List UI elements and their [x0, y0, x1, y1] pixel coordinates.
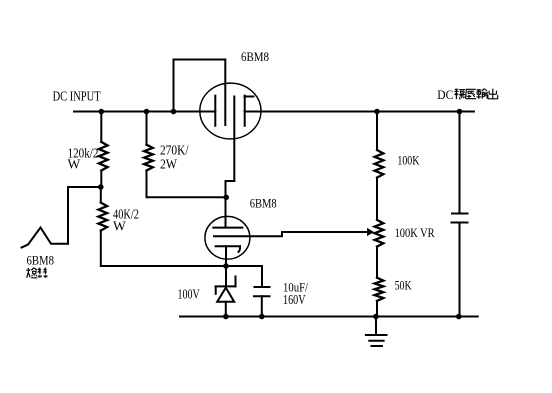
- svg-text:6BM8: 6BM8: [241, 49, 269, 64]
- svg-text:6BM8: 6BM8: [27, 253, 55, 268]
- svg-text:DC: DC: [437, 87, 453, 102]
- svg-text:2W: 2W: [160, 157, 177, 172]
- svg-text:270K/: 270K/: [160, 143, 189, 158]
- svg-text:50K: 50K: [395, 278, 412, 293]
- svg-text:100K VR: 100K VR: [395, 225, 435, 240]
- svg-text:DC INPUT: DC INPUT: [53, 90, 101, 105]
- svg-text:6BM8: 6BM8: [250, 196, 277, 211]
- svg-text:100V: 100V: [178, 287, 200, 302]
- svg-text:W: W: [113, 218, 126, 233]
- svg-text:160V: 160V: [283, 292, 306, 307]
- svg-text:W: W: [68, 156, 81, 171]
- svg-text:100K: 100K: [397, 152, 419, 167]
